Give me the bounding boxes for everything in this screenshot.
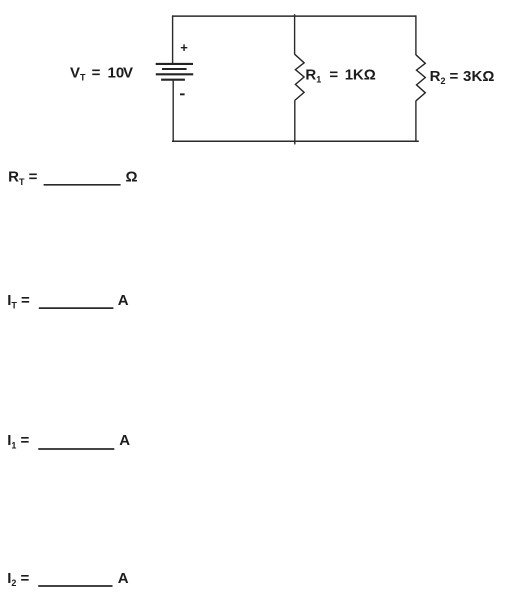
unit A for I2 [118,570,129,587]
svg-text:VT: VT [70,64,86,82]
label R2 = 3 KΩ [430,68,495,86]
svg-text:V: V [123,64,133,81]
answer blank RT [44,184,121,186]
wire right branch lower (R2 to bottom rail) [415,101,417,142]
svg-text:A: A [118,570,129,587]
svg-text:+: + [180,40,188,55]
resistor R1 [295,54,305,100]
wire left branch lower (battery - to bottom rail) [172,80,174,142]
unit Ω for RT [126,169,138,186]
unit A for IT [118,292,129,309]
svg-text:I1 =: I1 = [7,432,29,450]
svg-text:IT =: IT = [7,292,30,310]
answer blank I1 [38,448,114,450]
polarity - [180,93,185,95]
wire middle branch upper (top rail to R1) [294,14,296,54]
label I2 = [7,570,29,588]
label VT = 10 V [70,64,133,82]
unit A for I1 [119,432,130,449]
label RT = [8,169,38,187]
svg-text:RT =: RT = [8,169,38,187]
label I1 = [7,432,29,450]
svg-text:I2 =: I2 = [7,570,29,588]
wire left branch upper (top rail to battery +) [172,15,174,64]
label IT = [7,292,30,310]
answer blank I2 [38,585,112,587]
svg-text:R1: R1 [305,66,321,84]
battery VT [156,64,194,80]
svg-text:R2: R2 [430,68,446,86]
wire middle branch lower (R1 to bottom rail) [294,100,296,144]
svg-text:=: = [92,64,101,81]
svg-text:Ω: Ω [126,169,138,186]
svg-text:=: = [329,66,338,83]
svg-text:KΩ: KΩ [472,68,495,85]
svg-text:3: 3 [463,68,471,85]
resistor R2 [416,55,425,101]
wire bottom rail [172,140,419,142]
polarity + [180,40,188,55]
svg-text:A: A [118,292,129,309]
answer blank IT [39,307,114,309]
wire top rail [172,15,416,17]
svg-text:1: 1 [345,66,353,83]
svg-text:A: A [119,432,130,449]
svg-text:=: = [450,68,459,85]
wire right branch upper (top rail to R2) [415,15,417,55]
svg-text:10: 10 [108,64,125,81]
svg-text:KΩ: KΩ [353,66,376,83]
label R1 = 1 KΩ [305,66,375,84]
